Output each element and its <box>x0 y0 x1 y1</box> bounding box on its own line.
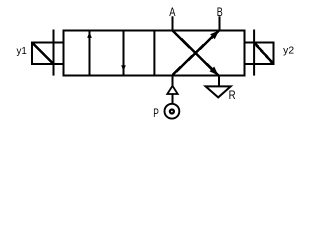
svg-text:y1: y1 <box>17 46 28 57</box>
svg-text:B: B <box>217 5 223 19</box>
svg-text:A: A <box>169 5 175 19</box>
svg-text:y2: y2 <box>283 46 294 57</box>
svg-text:R: R <box>229 88 236 102</box>
svg-text:P: P <box>153 106 159 120</box>
